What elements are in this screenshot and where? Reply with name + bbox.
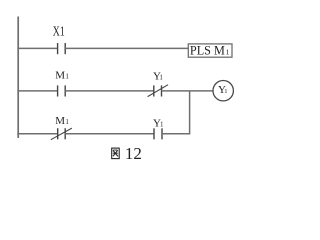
contact M1 <box>58 85 66 96</box>
wire rung3 left <box>17 133 57 135</box>
svg-text:1: 1 <box>224 88 227 95</box>
svg-text:X1: X1 <box>53 25 65 40</box>
label Y1 rung3 <box>153 117 164 129</box>
label M1 rung3 <box>55 115 69 127</box>
svg-text:1: 1 <box>160 120 164 128</box>
wire rung1 right <box>65 47 188 49</box>
svg-text:PLS M: PLS M <box>190 43 225 58</box>
svg-text:M: M <box>55 70 65 82</box>
contact Y1 rung3 <box>154 128 162 139</box>
wire rung1 left <box>17 47 57 49</box>
wire rung2 middle <box>65 90 154 92</box>
svg-text:12: 12 <box>125 144 142 163</box>
wire branch vertical <box>189 91 191 134</box>
svg-text:1: 1 <box>226 48 230 57</box>
wire rung2 left <box>17 90 57 92</box>
svg-text:1: 1 <box>159 73 163 81</box>
coil Y1 <box>213 81 233 101</box>
svg-text:1: 1 <box>65 73 69 81</box>
svg-text:M: M <box>55 115 65 127</box>
label PLS M1 <box>190 43 230 58</box>
label M1 <box>55 70 69 82</box>
wire rung3 right <box>162 133 190 135</box>
wire rung3 middle <box>65 133 154 135</box>
contact Y1 NC <box>148 85 169 97</box>
left power rail <box>17 17 19 139</box>
label Y1 coil <box>218 84 227 96</box>
caption hanzi tu <box>112 148 120 159</box>
label Y1 <box>153 70 163 82</box>
svg-text:1: 1 <box>65 118 69 126</box>
contact X1 <box>58 43 66 54</box>
wire rung2 right to coil <box>162 90 214 92</box>
PLS box <box>188 44 232 57</box>
contact M1 NC <box>51 128 72 140</box>
